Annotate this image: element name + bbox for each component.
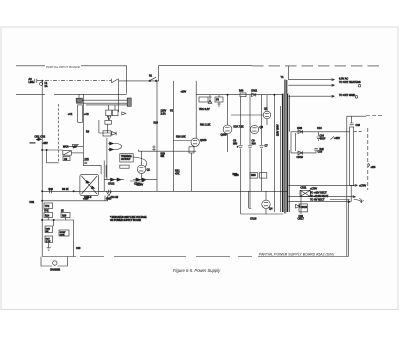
svg-text:ON POWER SUPPLY BOARD: ON POWER SUPPLY BOARD [110, 219, 141, 222]
svg-text:TO CRT HEATERS: TO CRT HEATERS [339, 81, 361, 84]
connector block left end [76, 98, 82, 102]
brace and label on dashed edge [368, 163, 370, 167]
svg-text:CR21: CR21 [251, 89, 258, 92]
svg-text:Q10B: Q10B [200, 139, 207, 142]
svg-text:R31 2.2K: R31 2.2K [200, 124, 211, 127]
wire: out row y185.4 [288, 184, 357, 186]
transformer T1 secondary winding [286, 94, 288, 212]
svg-text:2.7K: 2.7K [46, 241, 51, 243]
svg-text:C19: C19 [299, 215, 304, 218]
capacitor C16 at top [350, 116, 354, 125]
svg-text:C13: C13 [317, 127, 322, 130]
wire: x138.4 link [137, 150, 139, 152]
svg-text:115V 230V: 115V 230V [276, 124, 279, 136]
stub above connector [78, 94, 80, 98]
svg-text:+20V: +20V [181, 91, 187, 94]
diode CR21 on primary feed [252, 93, 256, 97]
capacitor C13 [317, 132, 321, 141]
wire: switch vertical [118, 83, 120, 112]
wire: dashed top line to right [252, 65, 384, 67]
svg-text:R10: R10 [49, 188, 54, 191]
resistor R16 box [61, 213, 70, 218]
wire: stub from dashed line to transformer [288, 66, 290, 80]
svg-text:CHK: CHK [60, 235, 65, 237]
svg-text:+62V: +62V [334, 137, 340, 140]
diode CR4b right [122, 112, 126, 115]
wire: x73.7 down to bus [73, 220, 75, 257]
svg-text:CR10: CR10 [297, 156, 304, 159]
wire: left vertical from line junction down [41, 81, 43, 257]
wire: bottom bus of power supply board [42, 256, 348, 258]
resistor R3 box [112, 110, 118, 116]
resistor R38 box [260, 173, 267, 179]
right dashed box left edge [346, 116, 348, 256]
resistor R14 box [44, 213, 53, 218]
wire: grid row [288, 95, 334, 97]
svg-text:CR8: CR8 [297, 127, 303, 130]
svg-text:R9 1K: R9 1K [62, 188, 69, 191]
switch S1 [149, 80, 151, 82]
wire: dashes right of R44 [354, 130, 363, 132]
wire: parallel leg [105, 165, 107, 178]
resistor R15 box [45, 226, 53, 233]
svg-text:+C2: +C2 [84, 113, 89, 116]
capacitor C7 [259, 95, 263, 192]
wire: input board top line left [16, 65, 45, 67]
parts at right end of row [105, 196, 108, 201]
resistor R5 box with diagonal [63, 151, 72, 156]
wire: Q10 down [227, 134, 229, 152]
chassis connector circle [53, 261, 57, 265]
wire: input board top line right of label [81, 66, 127, 94]
svg-text:300: 300 [252, 143, 257, 146]
wire: x83 vertical (switch leg through board) [82, 94, 84, 165]
resistor R13 box [120, 165, 129, 168]
capacitor C11 [83, 161, 89, 164]
wire: top line second section [159, 66, 252, 81]
svg-text:MAX: MAX [63, 146, 69, 149]
node: line junction [42, 80, 43, 81]
wire: y199.5 row [330, 199, 359, 202]
svg-text:R14: R14 [45, 215, 50, 217]
svg-text:+170V: +170V [310, 188, 317, 191]
arrow +62V [331, 136, 335, 139]
wire: Q1 to diode row [141, 174, 143, 180]
wire: to ground [47, 243, 51, 251]
wire: from connector to riser [119, 80, 159, 82]
svg-text:LINE: LINE [29, 81, 35, 84]
ref bubble [355, 96, 358, 99]
svg-text:R40: R40 [239, 89, 244, 92]
wire: VR stub [210, 95, 221, 107]
wire: CR10 row [291, 152, 316, 154]
wire: stubs [48, 209, 65, 227]
svg-text:CHASSIS: CHASSIS [50, 268, 61, 271]
fuse F3 box [215, 97, 223, 102]
svg-text:611: 611 [161, 155, 165, 158]
diode CR10 [298, 151, 303, 155]
wire: tall element lower lead [350, 186, 352, 202]
svg-text:+C1: +C1 [68, 113, 73, 116]
switch S1 connector ticks [112, 79, 119, 83]
svg-text:R36: R36 [233, 173, 238, 176]
wire: primary feed [196, 94, 282, 96]
svg-text:TP2: TP2 [45, 206, 50, 208]
svg-text:CR16: CR16 [250, 218, 257, 221]
connector J1 ticks [35, 79, 37, 83]
right dashed box top edge [347, 115, 366, 117]
transistor Q1 [137, 165, 145, 173]
resistor R37 box [250, 173, 258, 179]
wire: riser x291 [290, 132, 292, 153]
svg-text:+170V: +170V [359, 185, 366, 188]
wire: regulator row y151.2 [138, 150, 196, 152]
transformer T1 upper secondary bumps [286, 80, 288, 94]
transistor Q10B [191, 138, 199, 146]
ref bubble J2 [358, 84, 361, 87]
diode CR8 [298, 130, 303, 134]
svg-text:40UF: 40UF [320, 138, 326, 141]
wire: cluster stubs [99, 105, 115, 133]
diode CR16 [248, 191, 250, 208]
bridge diode arrow 2 [91, 186, 94, 189]
wire: y220 row [42, 219, 73, 221]
resistor R17 box [45, 236, 53, 243]
svg-text:PARTIAL POWER SUPPLY BOARD A5A: PARTIAL POWER SUPPLY BOARD A5A2 (S/N) [259, 253, 334, 257]
diode pair row 1 right [133, 178, 157, 181]
wire: primary left leg [273, 95, 275, 212]
wire: right bus corner [348, 200, 350, 257]
svg-text:VR1 6.2V: VR1 6.2V [199, 108, 210, 111]
svg-text:CR17: CR17 [298, 218, 305, 221]
diode CR1 [36, 138, 42, 141]
svg-text:2K: 2K [61, 210, 64, 212]
dashed link to S1 [58, 104, 60, 163]
wire: R28 row [173, 140, 191, 142]
bridge CR11-14 box [300, 190, 310, 196]
switch S1 blade [112, 79, 118, 83]
capacitor C9 column [249, 95, 251, 192]
wire: Q2 stub [266, 95, 268, 125]
zener diode symbol [208, 97, 212, 103]
transistor Q4 [262, 200, 270, 208]
wire: input board bottom line [16, 93, 127, 95]
wire: CR8 +170 row [291, 131, 350, 133]
rectifier diodes CR4 CR5 with loops [106, 138, 108, 180]
wire: CR17 vertical [300, 191, 302, 214]
wire: stub from page left [30, 142, 36, 144]
wire: riser x173.3 [172, 81, 174, 191]
diode CR3 down [107, 116, 111, 120]
wire loop component [78, 105, 83, 122]
wire: mid horizontal bus y191 [42, 190, 287, 192]
svg-text:R41: R41 [320, 148, 325, 151]
svg-text:* INDICATES 230V LINE VOLTAGE: * INDICATES 230V LINE VOLTAGE [110, 216, 147, 219]
transformer T1 secondary taps line [288, 95, 290, 212]
svg-text:R35: R35 [251, 174, 256, 177]
svg-text:C16: C16 [356, 124, 361, 127]
right end blocks [127, 98, 131, 106]
wire: y150 to R5 [42, 149, 63, 151]
svg-text:-15V: -15V [43, 142, 49, 145]
connector ticks on return wire [50, 189, 52, 193]
zener VR2 on drop [152, 145, 156, 151]
bridge rectifier CR5-CR8 box [80, 174, 99, 195]
wire: left stub y146.3 [68, 145, 83, 147]
resistor R44 tall element [350, 127, 354, 186]
resistor R6 box [105, 120, 112, 124]
right dashed box right edge [367, 128, 369, 190]
wire: primary tap leg [279, 106, 281, 212]
diode CR2 [36, 139, 39, 140]
wire: out row y201.7 [288, 201, 350, 203]
bridge diagonals [82, 176, 98, 194]
arc wire to Q1 [133, 157, 147, 167]
svg-text:R7A 7.5K: R7A 7.5K [234, 126, 245, 129]
wire: Q2 base row y115 [231, 114, 263, 116]
wire: riser x157 [156, 81, 158, 191]
wire: R5 to riser [71, 152, 83, 154]
svg-text:P/O A5: P/O A5 [111, 196, 119, 199]
bridge diode arrow 1 [86, 181, 90, 184]
wire: x83 to bridge top [83, 166, 101, 175]
resistor R30 box [189, 147, 194, 153]
svg-text:R28 10K: R28 10K [176, 135, 186, 138]
transistor Q3 [250, 125, 258, 133]
wire: secondary 6.3V row B [288, 84, 334, 86]
svg-text:Figure 6-5. Power Supply: Figure 6-5. Power Supply [173, 268, 221, 273]
svg-text:TO CRT GRID: TO CRT GRID [339, 94, 355, 97]
svg-text:C10: C10 [76, 247, 81, 250]
svg-text:2.5A: 2.5A [161, 113, 166, 116]
hook arrow at row end [359, 199, 362, 203]
wire: transformer bottom to Q4 [241, 191, 284, 214]
wire: R30 to bus [192, 138, 196, 191]
diode CR18 [296, 205, 300, 209]
connector ticks on bus [108, 190, 110, 193]
svg-text:+15V: +15V [83, 198, 89, 201]
svg-text:Q10B: Q10B [221, 133, 228, 136]
wire: out row y196.7 [288, 196, 355, 198]
resistor R40a box on primary feed [240, 93, 246, 97]
wire: x299 link [295, 133, 297, 151]
wire: filament bus lines [76, 100, 130, 105]
wire: columns below bus [241, 191, 252, 214]
wire: y200.8 row [42, 200, 108, 202]
chassis arrow below bus [106, 191, 111, 196]
svg-text:DS1: DS1 [30, 201, 35, 204]
svg-text:2A: 2A [45, 85, 48, 88]
svg-text:C11: C11 [85, 158, 90, 161]
transformer T1 core [285, 80, 286, 214]
capacitor C8 column [240, 97, 242, 192]
svg-text:R16: R16 [62, 215, 67, 217]
left edge text wire y181 [130, 180, 145, 182]
wire: bridge left to bus [74, 190, 80, 192]
svg-text:CUTOUT: CUTOUT [121, 159, 131, 161]
capacitor C19 box [299, 204, 308, 212]
svg-text:CR11: CR11 [300, 187, 307, 190]
capacitor C9a box [63, 156, 70, 160]
wire: riser x196.2 [195, 81, 197, 139]
wire: AC line dash-dot [37, 80, 111, 82]
svg-text:CR12: CR12 [108, 183, 115, 186]
resistor R8 box [103, 131, 111, 136]
svg-text:47K: 47K [175, 173, 180, 176]
loop wire [116, 144, 122, 150]
svg-text:CR18: CR18 [301, 206, 308, 209]
svg-text:GND: GND [106, 198, 112, 201]
svg-text:-12.6V: -12.6V [136, 184, 143, 187]
wire: x229 drop to Q10 [227, 95, 229, 125]
wire: bridge right leg [99, 161, 105, 192]
test point box [44, 203, 53, 209]
diode CR4 on stub [72, 145, 78, 148]
svg-text:THERMAL: THERMAL [121, 155, 133, 158]
svg-text:CR1 CR2: CR1 CR2 [35, 135, 46, 138]
system check box [59, 230, 69, 236]
svg-text:PARTIAL INPUT BOARD: PARTIAL INPUT BOARD [46, 65, 81, 69]
thermal time delay box [120, 154, 133, 162]
diode CR9 right [112, 132, 116, 136]
squiggle at end [359, 199, 364, 202]
capacitor C15 [314, 148, 318, 153]
resistor R2 box [106, 110, 112, 116]
svg-text:TO HV RECT: TO HV RECT [310, 198, 325, 201]
transistor Q2 [263, 111, 271, 119]
transformer T1 primary winding [282, 94, 284, 212]
zener VR1 cluster: box [199, 97, 208, 102]
wire: Q1 base drop [141, 151, 143, 165]
fuse F1 [40, 82, 43, 85]
component loop below wire [47, 150, 59, 163]
diode pair row 1 left [104, 178, 124, 181]
right dashed box top dashes [366, 115, 384, 117]
svg-text:R19: R19 [154, 122, 159, 125]
wire: secondary 6.3V row A [288, 79, 334, 81]
transistor Q10 [223, 125, 232, 134]
ground bracket bottom left [41, 257, 68, 267]
